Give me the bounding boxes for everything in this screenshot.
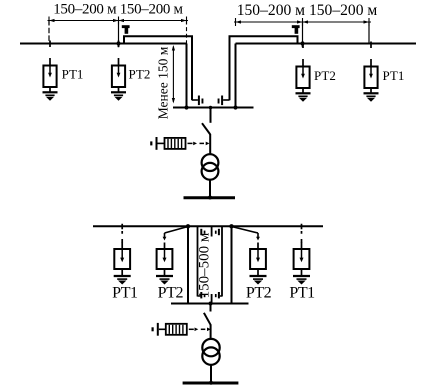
svg-text:150–200 м 150–200 м: 150–200 м 150–200 м — [53, 2, 183, 18]
svg-text:РТ2: РТ2 — [246, 285, 272, 302]
svg-text:РТ2: РТ2 — [158, 285, 184, 302]
svg-text:РТ1: РТ1 — [289, 285, 315, 302]
svg-text:РТ2: РТ2 — [314, 68, 336, 83]
svg-text:Менее 150 м: Менее 150 м — [155, 46, 170, 119]
svg-text:150–500 м: 150–500 м — [196, 232, 212, 298]
svg-text:РТ1: РТ1 — [62, 67, 84, 82]
svg-text:150–200 м 150–200 м: 150–200 м 150–200 м — [237, 2, 378, 19]
svg-text:РТ2: РТ2 — [129, 67, 151, 82]
svg-text:РТ1: РТ1 — [112, 285, 138, 302]
svg-text:РТ1: РТ1 — [383, 68, 405, 83]
